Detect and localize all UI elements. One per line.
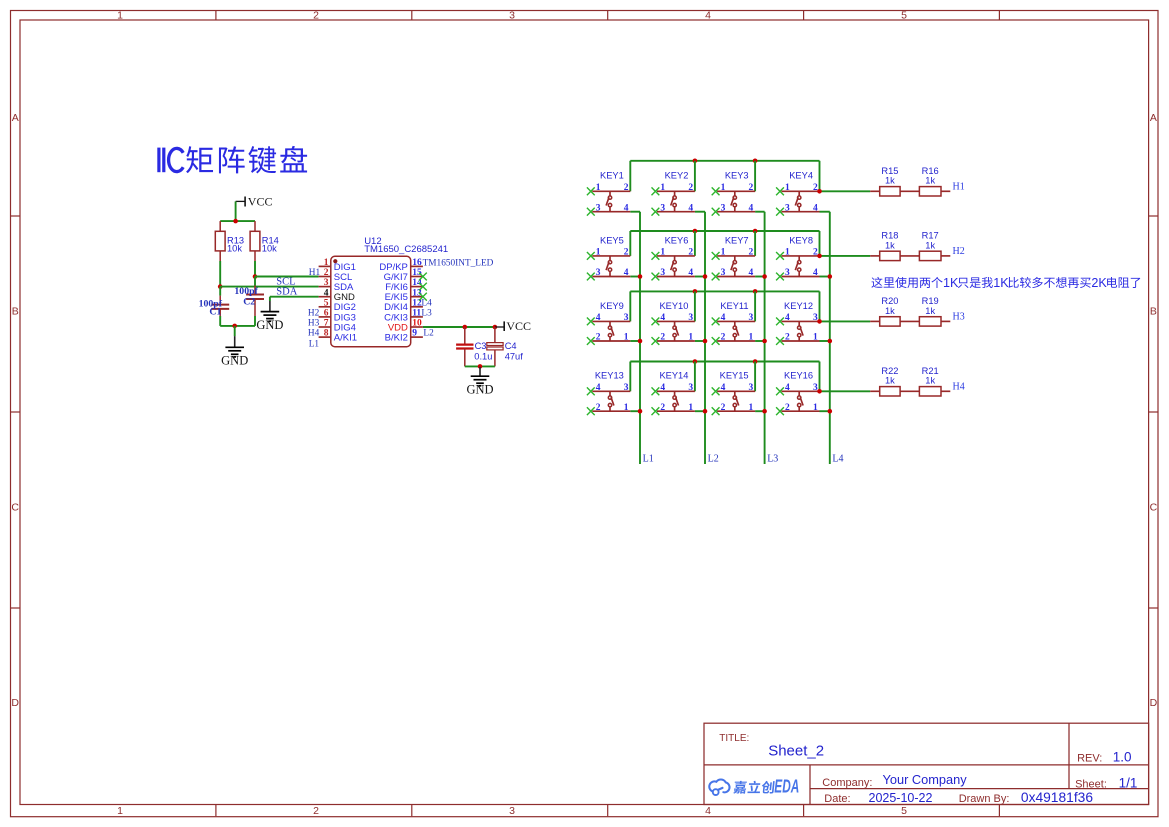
svg-text:R17: R17: [922, 231, 939, 241]
svg-text:2: 2: [313, 805, 319, 817]
node trunk L4 row 2: [828, 274, 833, 279]
switch KEY2: [652, 171, 695, 216]
wire rail 1 drop col 2: [694, 161, 696, 192]
node C3 top: [463, 325, 468, 330]
svg-text:C3: C3: [475, 341, 487, 351]
wire key14 pin4 to trunk: [695, 410, 705, 412]
wire key13 pin4 to trunk: [630, 410, 640, 412]
wire H2 row: [820, 255, 871, 257]
svg-text:1: 1: [688, 333, 693, 343]
svg-text:2K: 2K: [1091, 276, 1107, 290]
svg-text:GND: GND: [221, 354, 248, 368]
svg-text:4: 4: [660, 313, 665, 323]
resistor R19 1k: [900, 296, 950, 326]
wire rail 2 drop col 4: [819, 231, 821, 256]
svg-text:KEY15: KEY15: [720, 371, 749, 381]
wire key2 pin4 to trunk: [695, 211, 705, 213]
svg-text:KEY2: KEY2: [665, 171, 689, 181]
svg-text:KEY14: KEY14: [659, 371, 688, 381]
wire rail 3 drop col 1: [629, 291, 631, 321]
node C3C4 gnd junction: [478, 364, 483, 369]
svg-text:H3: H3: [308, 319, 320, 329]
svg-text:1: 1: [785, 248, 790, 258]
svg-text:10k: 10k: [262, 243, 277, 253]
wire column trunk L3: [764, 212, 766, 464]
svg-text:1K: 1K: [993, 276, 1009, 290]
svg-text:47uf: 47uf: [505, 351, 524, 361]
no-connect pin 15: [419, 273, 427, 281]
svg-text:2: 2: [813, 248, 818, 258]
svg-text:C: C: [11, 502, 19, 514]
svg-text:1: 1: [624, 333, 629, 343]
svg-text:Drawn By:: Drawn By:: [959, 793, 1010, 805]
svg-text:2: 2: [688, 248, 693, 258]
node R14/C2 junction: [253, 274, 258, 279]
svg-text:2: 2: [313, 10, 319, 22]
node rail 2 junction b: [753, 229, 758, 234]
svg-text:3: 3: [324, 278, 329, 288]
svg-text:9: 9: [412, 329, 417, 339]
svg-text:10: 10: [412, 319, 422, 329]
wire gnd stem: [234, 326, 236, 336]
resistor R17 1k: [900, 231, 950, 261]
svg-text:2: 2: [660, 403, 665, 413]
svg-text:1K: 1K: [943, 276, 959, 290]
node trunk L3 row 4: [762, 409, 767, 414]
svg-text:3: 3: [688, 313, 693, 323]
svg-text:2: 2: [624, 183, 629, 193]
switch KEY7: [712, 235, 755, 280]
svg-text:VCC: VCC: [248, 194, 273, 208]
svg-text:L1: L1: [643, 454, 654, 465]
svg-text:2: 2: [688, 183, 693, 193]
ground symbol (C3 C4): [466, 367, 493, 397]
node rail 4 junction b: [753, 359, 758, 364]
node rail 3 junction a: [693, 289, 698, 294]
wire rail 4 drop col 2: [694, 362, 696, 392]
svg-text:3: 3: [624, 383, 629, 393]
svg-text:H1: H1: [953, 181, 965, 192]
svg-text:3: 3: [509, 10, 515, 22]
svg-text:REV:: REV:: [1077, 753, 1102, 765]
switch KEY3: [712, 171, 755, 216]
wire rail 1 drop col 3: [754, 161, 756, 192]
pin 1 DIG1: [319, 258, 356, 273]
wire row 3 top rail: [630, 290, 819, 292]
no-connect pin 14: [419, 283, 427, 291]
svg-text:4: 4: [705, 10, 711, 22]
wire C1 C2 to gnd rail: [219, 316, 221, 326]
node trunk L3 row 2: [762, 274, 767, 279]
svg-text:KEY8: KEY8: [789, 235, 813, 245]
svg-text:1k: 1k: [885, 306, 895, 316]
svg-text:5: 5: [324, 298, 329, 308]
pin 9 B/KI2: [385, 329, 423, 344]
pin 13 E/KI5: [385, 288, 423, 303]
capacitor C4 47uf (polarized): [487, 327, 523, 366]
svg-text:C2: C2: [243, 297, 255, 308]
svg-text:3: 3: [785, 203, 790, 213]
svg-text:3: 3: [688, 383, 693, 393]
node trunk L4 row 4: [828, 409, 833, 414]
svg-text:3: 3: [596, 268, 601, 278]
node H1 tap: [817, 189, 822, 194]
switch KEY11: [712, 301, 755, 345]
wire R13 to SDA: [219, 261, 221, 287]
svg-text:3: 3: [721, 203, 726, 213]
resistor R21 1k: [900, 366, 950, 396]
wire rail 2 drop col 3: [754, 231, 756, 256]
svg-text:3: 3: [509, 805, 515, 817]
svg-text:1k: 1k: [885, 176, 895, 186]
svg-text:1k: 1k: [925, 240, 935, 250]
svg-text:R22: R22: [881, 366, 898, 376]
pin 5 DIG2: [319, 298, 356, 313]
svg-text:3: 3: [785, 268, 790, 278]
node H2 tap: [817, 254, 822, 259]
wire rail 1 drop col 1: [629, 161, 631, 192]
svg-text:1: 1: [596, 183, 601, 193]
svg-text:1k: 1k: [925, 376, 935, 386]
wire GND to pin4: [270, 296, 319, 298]
svg-text:2: 2: [721, 333, 726, 343]
schematic title IIC matrix keyboard: [157, 146, 307, 174]
svg-text:L3: L3: [421, 309, 432, 319]
wire rail 3 drop col 3: [754, 291, 756, 321]
wire key11 pin4 to trunk: [755, 340, 765, 342]
svg-text:KEY4: KEY4: [789, 171, 813, 181]
svg-text:L1: L1: [309, 339, 320, 349]
svg-text:R20: R20: [881, 296, 898, 306]
node trunk L3 row 3: [762, 339, 767, 344]
svg-text:R15: R15: [881, 166, 898, 176]
svg-text:2: 2: [749, 183, 754, 193]
capacitor C2 100pf: [234, 277, 264, 317]
svg-text:KEY6: KEY6: [665, 235, 689, 245]
svg-text:C: C: [1150, 502, 1158, 514]
node C4 top: [493, 325, 498, 330]
resistor R20 1k: [870, 296, 900, 326]
switch KEY4: [776, 171, 819, 216]
svg-text:KEY1: KEY1: [600, 171, 624, 181]
node H4 tap: [817, 389, 822, 394]
pin 12 D/KI4: [384, 298, 423, 313]
pin 4 GND: [319, 288, 355, 303]
power flag VCC (left): [236, 194, 273, 208]
switch KEY8: [776, 235, 819, 280]
ground symbol (pin4): [256, 301, 283, 332]
svg-text:Sheet:: Sheet:: [1075, 779, 1107, 791]
svg-text:KEY5: KEY5: [600, 235, 624, 245]
svg-text:4: 4: [785, 313, 790, 323]
svg-text:TM1650_C2685241: TM1650_C2685241: [364, 244, 448, 255]
svg-text:2: 2: [785, 333, 790, 343]
pin 11 C/KI3: [384, 309, 423, 324]
svg-text:R21: R21: [922, 366, 939, 376]
wire rail 3 drop col 4: [819, 291, 821, 321]
wire H3 row: [820, 320, 871, 322]
title block border: [704, 723, 1149, 804]
wire rail 2 drop col 1: [629, 231, 631, 256]
svg-text:A: A: [1150, 112, 1157, 124]
wire key1 pin4 to trunk: [630, 211, 640, 213]
node H3 tap: [817, 319, 822, 324]
pin 6 DIG3: [319, 309, 356, 324]
svg-text:1: 1: [813, 403, 818, 413]
resistor R13: [215, 221, 244, 261]
svg-text:1: 1: [813, 333, 818, 343]
svg-text:KEY9: KEY9: [600, 301, 624, 311]
wire H4 row: [820, 390, 871, 392]
switch KEY15: [712, 371, 755, 415]
svg-text:Sheet_2: Sheet_2: [768, 743, 824, 760]
svg-text:1: 1: [660, 248, 665, 258]
wire key8 pin4 to trunk: [820, 276, 830, 278]
resistor R18 1k: [870, 231, 900, 261]
svg-text:TITLE:: TITLE:: [719, 733, 749, 744]
svg-text:R18: R18: [881, 231, 898, 241]
svg-text:4: 4: [324, 288, 329, 298]
svg-text:2: 2: [596, 333, 601, 343]
capacitor C3 0.1u: [456, 327, 492, 366]
wire key10 pin4 to trunk: [695, 340, 705, 342]
svg-text:100pf: 100pf: [234, 286, 258, 297]
svg-text:4: 4: [705, 805, 711, 817]
svg-text:KEY11: KEY11: [720, 301, 748, 311]
wire rail 2 drop col 2: [694, 231, 696, 256]
svg-text:2: 2: [785, 403, 790, 413]
node R13/C1 junction: [218, 284, 223, 289]
svg-text:3: 3: [749, 383, 754, 393]
svg-text:H4: H4: [308, 329, 320, 339]
svg-text:4: 4: [624, 203, 629, 213]
wire SDA net: [220, 286, 318, 288]
wire rail 4 drop col 4: [819, 362, 821, 392]
pin 2 SCL: [319, 268, 353, 283]
pin 15 G/KI7: [384, 268, 423, 283]
power flag VCC (right): [495, 319, 531, 333]
pin 8 A/KI1: [319, 329, 357, 344]
annotation note (chinese): [871, 276, 1140, 290]
wire key15 pin4 to trunk: [755, 410, 765, 412]
node trunk L1 row 4: [638, 409, 643, 414]
svg-text:B: B: [12, 305, 19, 317]
wire C3 C4 bottom rail: [465, 365, 495, 367]
pin 1 indicator dot: [333, 259, 337, 263]
switch KEY13: [587, 371, 630, 415]
resistor R16 1k: [900, 166, 950, 196]
resistor R14: [250, 221, 279, 261]
wire VCC down: [235, 201, 237, 221]
logo JLC EDA: [709, 777, 799, 797]
svg-text:3: 3: [749, 313, 754, 323]
svg-text:1: 1: [117, 805, 123, 817]
svg-text:R19: R19: [922, 296, 939, 306]
node trunk L2 row 3: [703, 339, 708, 344]
node rail 3 junction b: [753, 289, 758, 294]
svg-text:4: 4: [688, 268, 693, 278]
svg-text:3: 3: [813, 383, 818, 393]
node rail 1 junction a: [693, 159, 698, 164]
node trunk L2 row 4: [703, 409, 708, 414]
switch KEY1: [587, 171, 630, 216]
svg-text:3: 3: [624, 313, 629, 323]
svg-text:A/KI1: A/KI1: [334, 333, 357, 344]
node gnd rail junction: [232, 324, 237, 329]
svg-text:KEY16: KEY16: [784, 371, 813, 381]
svg-text:1: 1: [324, 258, 329, 268]
svg-text:GND: GND: [466, 382, 493, 396]
svg-text:5: 5: [901, 10, 907, 22]
svg-text:11: 11: [412, 309, 421, 319]
wire key3 pin4 to trunk: [755, 211, 765, 213]
svg-text:H4: H4: [953, 381, 965, 392]
wire column trunk L1: [639, 212, 641, 464]
op-amp U12 TM1650_C2685241 body: [331, 256, 411, 346]
svg-text:TM1650INT_LED: TM1650INT_LED: [423, 258, 494, 268]
wire VCC rail: [220, 220, 255, 222]
svg-text:1k: 1k: [925, 306, 935, 316]
svg-text:B: B: [1150, 305, 1157, 317]
node VCC rail junction: [233, 219, 238, 224]
pin 14 F/KI6: [385, 278, 423, 293]
svg-text:1: 1: [660, 183, 665, 193]
svg-text:4: 4: [813, 268, 818, 278]
svg-text:1: 1: [596, 248, 601, 258]
capacitor C1 100pf: [199, 287, 230, 318]
wire row 4 top rail: [630, 361, 819, 363]
svg-text:2025-10-22: 2025-10-22: [869, 791, 933, 805]
svg-text:0x49181f36: 0x49181f36: [1021, 790, 1093, 805]
svg-text:16: 16: [412, 258, 422, 268]
svg-text:2: 2: [624, 248, 629, 258]
node rail 4 junction a: [693, 359, 698, 364]
svg-text:KEY3: KEY3: [725, 171, 749, 181]
svg-text:3: 3: [660, 203, 665, 213]
node trunk L2 row 2: [703, 274, 708, 279]
svg-text:KEY7: KEY7: [725, 235, 749, 245]
svg-text:Your Company: Your Company: [883, 772, 968, 787]
switch KEY12: [776, 301, 819, 345]
svg-text:H1: H1: [309, 268, 321, 278]
switch KEY9: [587, 301, 630, 345]
wire rail 1 drop col 4: [819, 161, 821, 192]
svg-text:H3: H3: [953, 312, 965, 323]
svg-text:1: 1: [785, 183, 790, 193]
svg-text:0.1u: 0.1u: [474, 351, 492, 361]
switch KEY16: [776, 371, 819, 415]
wire SCL net: [255, 276, 319, 278]
svg-text:1: 1: [749, 403, 754, 413]
svg-text:8: 8: [324, 329, 329, 339]
resistor R15 1k: [870, 166, 900, 196]
svg-text:1: 1: [624, 403, 629, 413]
wire key9 pin4 to trunk: [630, 340, 640, 342]
svg-text:1.0: 1.0: [1113, 750, 1132, 765]
wire row 1 top rail: [630, 160, 819, 162]
switch KEY5: [587, 235, 630, 280]
svg-text:4: 4: [596, 383, 601, 393]
wire row 2 top rail: [630, 230, 819, 232]
svg-text:7: 7: [324, 319, 329, 329]
svg-text:5: 5: [901, 805, 907, 817]
svg-text:10k: 10k: [227, 243, 242, 253]
svg-text:1: 1: [688, 403, 693, 413]
svg-text:1: 1: [721, 248, 726, 258]
node rail 2 junction a: [693, 229, 698, 234]
node trunk L4 row 3: [828, 339, 833, 344]
svg-text:H2: H2: [308, 309, 320, 319]
svg-text:B/KI2: B/KI2: [385, 333, 408, 344]
no-connect pin 13: [419, 293, 427, 301]
ground symbol (C1 C2): [221, 336, 248, 367]
svg-text:4: 4: [596, 313, 601, 323]
svg-text:2: 2: [324, 268, 329, 278]
svg-text:3: 3: [660, 268, 665, 278]
svg-text:A: A: [12, 112, 19, 124]
wire rail 4 drop col 1: [629, 362, 631, 392]
svg-text:1k: 1k: [885, 240, 895, 250]
svg-text:4: 4: [785, 383, 790, 393]
svg-text:3: 3: [596, 203, 601, 213]
svg-text:D: D: [11, 697, 19, 709]
node trunk L1 row 2: [638, 274, 643, 279]
pin 7 DIG4: [319, 319, 356, 334]
svg-text:4: 4: [660, 383, 665, 393]
svg-text:KEY12: KEY12: [784, 301, 813, 311]
switch KEY10: [652, 301, 695, 345]
switch KEY14: [652, 371, 695, 415]
svg-text:1: 1: [749, 333, 754, 343]
svg-text:2: 2: [813, 183, 818, 193]
wire column trunk L2: [704, 212, 706, 464]
svg-text:4: 4: [688, 203, 693, 213]
svg-text:1/1: 1/1: [1119, 776, 1138, 791]
svg-text:GND: GND: [256, 318, 283, 332]
wire column trunk L4: [829, 212, 831, 464]
svg-text:R16: R16: [922, 166, 939, 176]
svg-text:L2: L2: [423, 328, 434, 338]
wire key12 pin4 to trunk: [820, 340, 830, 342]
svg-text:L2: L2: [708, 454, 719, 465]
svg-text:L4: L4: [832, 454, 843, 465]
svg-text:L3: L3: [767, 454, 778, 465]
wire key5 pin4 to trunk: [630, 276, 640, 278]
svg-text:C4: C4: [505, 341, 517, 351]
svg-text:EDA: EDA: [774, 777, 799, 797]
svg-text:4: 4: [813, 203, 818, 213]
svg-text:4: 4: [721, 383, 726, 393]
svg-text:2: 2: [721, 403, 726, 413]
wire rail 4 drop col 3: [754, 362, 756, 392]
svg-text:1k: 1k: [925, 176, 935, 186]
wire H1 row: [820, 190, 871, 192]
node trunk L1 row 3: [638, 339, 643, 344]
svg-text:1: 1: [117, 10, 123, 22]
wire R14 to SCL: [254, 261, 256, 277]
pin 10 VDD: [388, 319, 423, 334]
wire key6 pin4 to trunk: [695, 276, 705, 278]
wire key16 pin4 to trunk: [820, 410, 830, 412]
svg-text:Date:: Date:: [824, 793, 850, 805]
svg-text:6: 6: [324, 309, 329, 319]
node rail 1 junction b: [753, 159, 758, 164]
svg-text:D: D: [1150, 697, 1158, 709]
svg-text:Company:: Company:: [822, 777, 872, 789]
svg-text:1: 1: [721, 183, 726, 193]
svg-text:KEY10: KEY10: [659, 301, 688, 311]
svg-text:VCC: VCC: [506, 319, 531, 333]
